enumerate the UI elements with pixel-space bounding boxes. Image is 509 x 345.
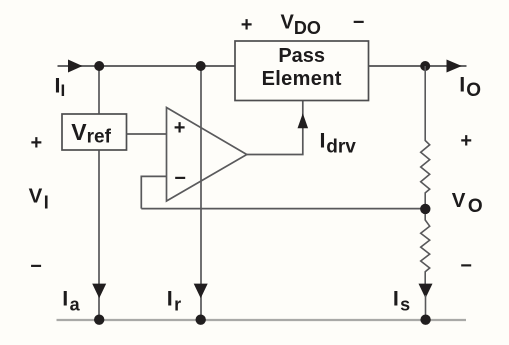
svg-text:+: + <box>460 130 472 152</box>
output arrow I_O <box>447 60 462 73</box>
node: ground junction S <box>420 315 430 325</box>
node: input junction dot <box>94 61 104 71</box>
wire: top rail right segment <box>369 65 467 67</box>
Pass Element box <box>235 41 369 101</box>
input arrow II <box>68 60 83 73</box>
arrow I_s (downward) <box>419 284 433 299</box>
wire: op-amp output to pass element drive <box>247 101 303 155</box>
svg-text:−: − <box>353 11 365 33</box>
svg-text:+: + <box>174 117 186 139</box>
arrow I_a (downward) <box>92 284 106 299</box>
op-amp U1 (error amplifier) <box>167 108 247 202</box>
wire: output node down to resistor R1 <box>424 66 426 141</box>
arrow I_drv (upward) <box>298 113 309 128</box>
wire: top rail left segment <box>58 65 236 67</box>
node VO junction dot <box>420 204 430 214</box>
svg-text:Pass: Pass <box>278 45 325 67</box>
node: center top junction dot <box>196 61 206 71</box>
arrow I_r (downward) <box>194 284 208 299</box>
node: ground junction A <box>94 315 104 325</box>
svg-text:+: + <box>241 14 253 36</box>
svg-text:−: − <box>30 255 42 277</box>
node: output junction dot <box>420 61 430 71</box>
wire: op-amp inverting input lead <box>141 176 166 208</box>
wire: feedback line to VO node <box>141 208 425 210</box>
resistor R1 (upper divider) <box>421 141 430 205</box>
wire: Vref output to op-amp + input <box>127 133 167 135</box>
svg-text:+: + <box>31 132 43 154</box>
svg-text:Element: Element <box>262 68 342 90</box>
wire: vertical from input node down to ground node A <box>98 66 100 319</box>
resistor R2 (lower divider) <box>421 214 430 284</box>
node: ground junction R <box>196 315 206 325</box>
wire: arrow to ground node <box>425 295 427 319</box>
wire: vertical from top rail center node down to ground (I_r path) <box>200 66 202 319</box>
Vref box <box>62 114 127 150</box>
svg-text:−: − <box>460 255 472 277</box>
ground rail <box>57 319 467 321</box>
svg-text:−: − <box>174 168 186 190</box>
